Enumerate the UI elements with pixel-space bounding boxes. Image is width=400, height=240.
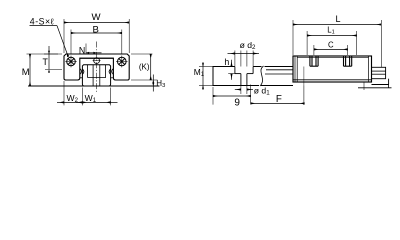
svg-text:9: 9: [234, 98, 240, 109]
dim W2: [57, 101, 64, 103]
grease nipple: [372, 67, 386, 78]
svg-text:C: C: [328, 40, 334, 49]
svg-text:T: T: [43, 57, 49, 67]
rail center line: [96, 42, 98, 93]
carriage end seal right: [368, 56, 370, 82]
rail break line: [260, 66, 264, 86]
svg-text:M: M: [22, 66, 30, 77]
svg-text:(K): (K): [139, 62, 150, 71]
dim N: [85, 44, 87, 54]
carriage tapped hole 2: [344, 56, 352, 66]
svg-text:ø d2: ø d2: [240, 40, 256, 51]
dim W2 W1 extension lines: [63, 81, 65, 105]
svg-text:B: B: [92, 24, 98, 35]
svg-text:W: W: [91, 12, 101, 23]
rail hole 3 centerline: [363, 82, 365, 90]
dim L1: [306, 31, 308, 55]
dim M1: [199, 66, 213, 68]
svg-text:L1: L1: [327, 25, 334, 35]
dim W1: [82, 101, 110, 103]
dim ød2: [240, 51, 242, 67]
dim h: [228, 73, 235, 75]
dim B: [70, 30, 72, 54]
carriage inner groove bump left: [80, 69, 82, 75]
dim L: [292, 20, 294, 55]
carriage leg shelf right: [111, 77, 114, 79]
rail groove notch left: [82, 69, 84, 74]
rail through-hole walls (front): [92, 65, 94, 86]
carriage leg shelf left: [80, 77, 83, 79]
rail groove notch right: [109, 69, 111, 74]
rail sectioned left portion: [213, 67, 262, 86]
mounting baseline: [28, 85, 160, 87]
dim H3: [131, 79, 158, 81]
svg-text:h: h: [224, 57, 229, 67]
dim ød1: [240, 86, 242, 95]
rail counterbore walls (front): [87, 65, 89, 78]
leader for 4-S×ℓ: [57, 26, 68, 57]
screw hole S left: [67, 57, 76, 66]
dim M: [27, 53, 63, 55]
svg-text:4-S×ℓ: 4-S×ℓ: [30, 17, 54, 27]
screw hole S left centerlines: [65, 56, 77, 68]
rail mounting hole circle: [94, 58, 100, 64]
svg-text:N: N: [79, 46, 85, 56]
carriage tapped hole 1: [310, 56, 318, 66]
carriage top inner line: [297, 57, 368, 59]
carriage side outline: [293, 56, 372, 82]
rail counterbore shelf (front): [88, 77, 106, 79]
baseline right: [358, 87, 392, 89]
svg-text:W2: W2: [66, 93, 78, 104]
screw hole S right: [118, 57, 127, 66]
dim (K): [131, 53, 153, 55]
dim F: [251, 102, 305, 104]
svg-text:ø d1: ø d1: [254, 86, 270, 97]
dim g: [212, 87, 214, 105]
rail cross-section: [82, 65, 110, 86]
carriage block outer outline: [64, 54, 129, 80]
carriage slot ceiling line: [80, 57, 114, 59]
rail right end: [372, 84, 389, 86]
carriage inner groove bump right: [112, 69, 114, 75]
dim C: [313, 45, 315, 55]
carriage bottom skirt line: [293, 79, 372, 81]
svg-text:F: F: [276, 94, 282, 105]
svg-text:W1: W1: [85, 93, 97, 104]
rail hole 2 centerline: [303, 67, 305, 86]
screw hole S right centerlines: [116, 56, 128, 68]
rail hole circle center tick: [93, 60, 101, 62]
svg-text:L: L: [335, 14, 340, 24]
rail segment between break and carriage: [265, 66, 294, 68]
rail counterbore d2: [234, 67, 236, 74]
carriage end seal left: [294, 56, 296, 82]
dim W: [63, 19, 65, 53]
dim T: [44, 53, 58, 55]
rail hole d1: [240, 74, 242, 86]
svg-text:H3: H3: [156, 79, 165, 89]
